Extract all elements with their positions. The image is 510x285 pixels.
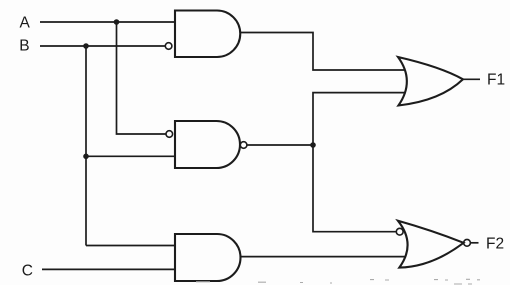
- junction on B branch: [83, 154, 89, 160]
- junction on B line: [83, 43, 89, 49]
- inversion bubble U5 input pin: [396, 228, 403, 235]
- wire C to U3 bottom input: [42, 268, 175, 270]
- nor-gate U5: [398, 221, 464, 268]
- nand-gate U2: [175, 121, 240, 168]
- wire U3 output to U5 bottom input: [241, 256, 406, 258]
- inversion bubble U2 output pin: [240, 142, 247, 149]
- wire B branch vertical: [85, 46, 87, 246]
- svg-text:F1: F1: [487, 71, 505, 88]
- svg-text:B: B: [19, 37, 29, 54]
- svg-text:A: A: [20, 14, 31, 31]
- svg-text:C: C: [22, 263, 33, 280]
- wire A branch down to U2 top input: [117, 22, 166, 134]
- wire junction up to U4 bottom input: [313, 93, 405, 145]
- svg-text:F2: F2: [486, 235, 504, 252]
- inversion bubble U2 input pin: [166, 131, 173, 138]
- wire U1 output to U4 top input: [240, 33, 404, 71]
- junction node at U2 output net: [310, 142, 316, 148]
- wire B branch to U2 bottom input: [86, 155, 175, 157]
- wire junction down to U5 inverted input: [313, 145, 396, 232]
- wire B branch to U3 top input: [86, 245, 175, 247]
- junction on A line: [114, 19, 120, 25]
- inversion bubble U1 input pin: [165, 43, 172, 50]
- scan speckle artifacts: [196, 279, 480, 284]
- wire U4 output to F1: [463, 78, 480, 80]
- and-gate U1: [175, 11, 240, 58]
- and-gate U3: [175, 234, 240, 281]
- wire A to U1 top input: [40, 21, 175, 23]
- wire U2 output to junction: [247, 144, 313, 146]
- inversion bubble U5 output pin: [464, 239, 471, 246]
- or-gate U4: [398, 57, 463, 106]
- wire U5 output to F2: [470, 242, 478, 244]
- wire B to U1 inverted input: [40, 45, 165, 47]
